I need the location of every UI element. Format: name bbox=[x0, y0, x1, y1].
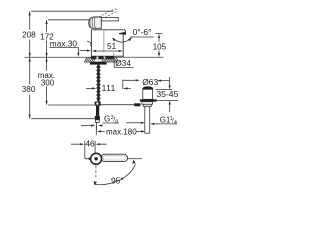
svg-text:0°-6°: 0°-6° bbox=[133, 27, 152, 37]
svg-text:Ø63: Ø63 bbox=[142, 77, 158, 87]
svg-text:8: 8 bbox=[115, 119, 118, 125]
svg-text:105: 105 bbox=[153, 42, 167, 51]
svg-text:380: 380 bbox=[22, 85, 36, 94]
svg-text:111: 111 bbox=[102, 83, 116, 93]
svg-text:51: 51 bbox=[107, 42, 117, 51]
svg-text:G: G bbox=[104, 115, 110, 124]
svg-text:4: 4 bbox=[174, 120, 177, 126]
svg-text:max.180: max.180 bbox=[106, 128, 137, 137]
svg-text:208: 208 bbox=[22, 31, 36, 40]
svg-text:95°: 95° bbox=[111, 175, 124, 185]
svg-text:300: 300 bbox=[41, 79, 55, 88]
svg-text:35-45: 35-45 bbox=[156, 89, 178, 99]
svg-text:46: 46 bbox=[85, 138, 95, 148]
svg-text:Ø34: Ø34 bbox=[115, 59, 131, 68]
svg-text:max.30: max.30 bbox=[50, 38, 78, 48]
